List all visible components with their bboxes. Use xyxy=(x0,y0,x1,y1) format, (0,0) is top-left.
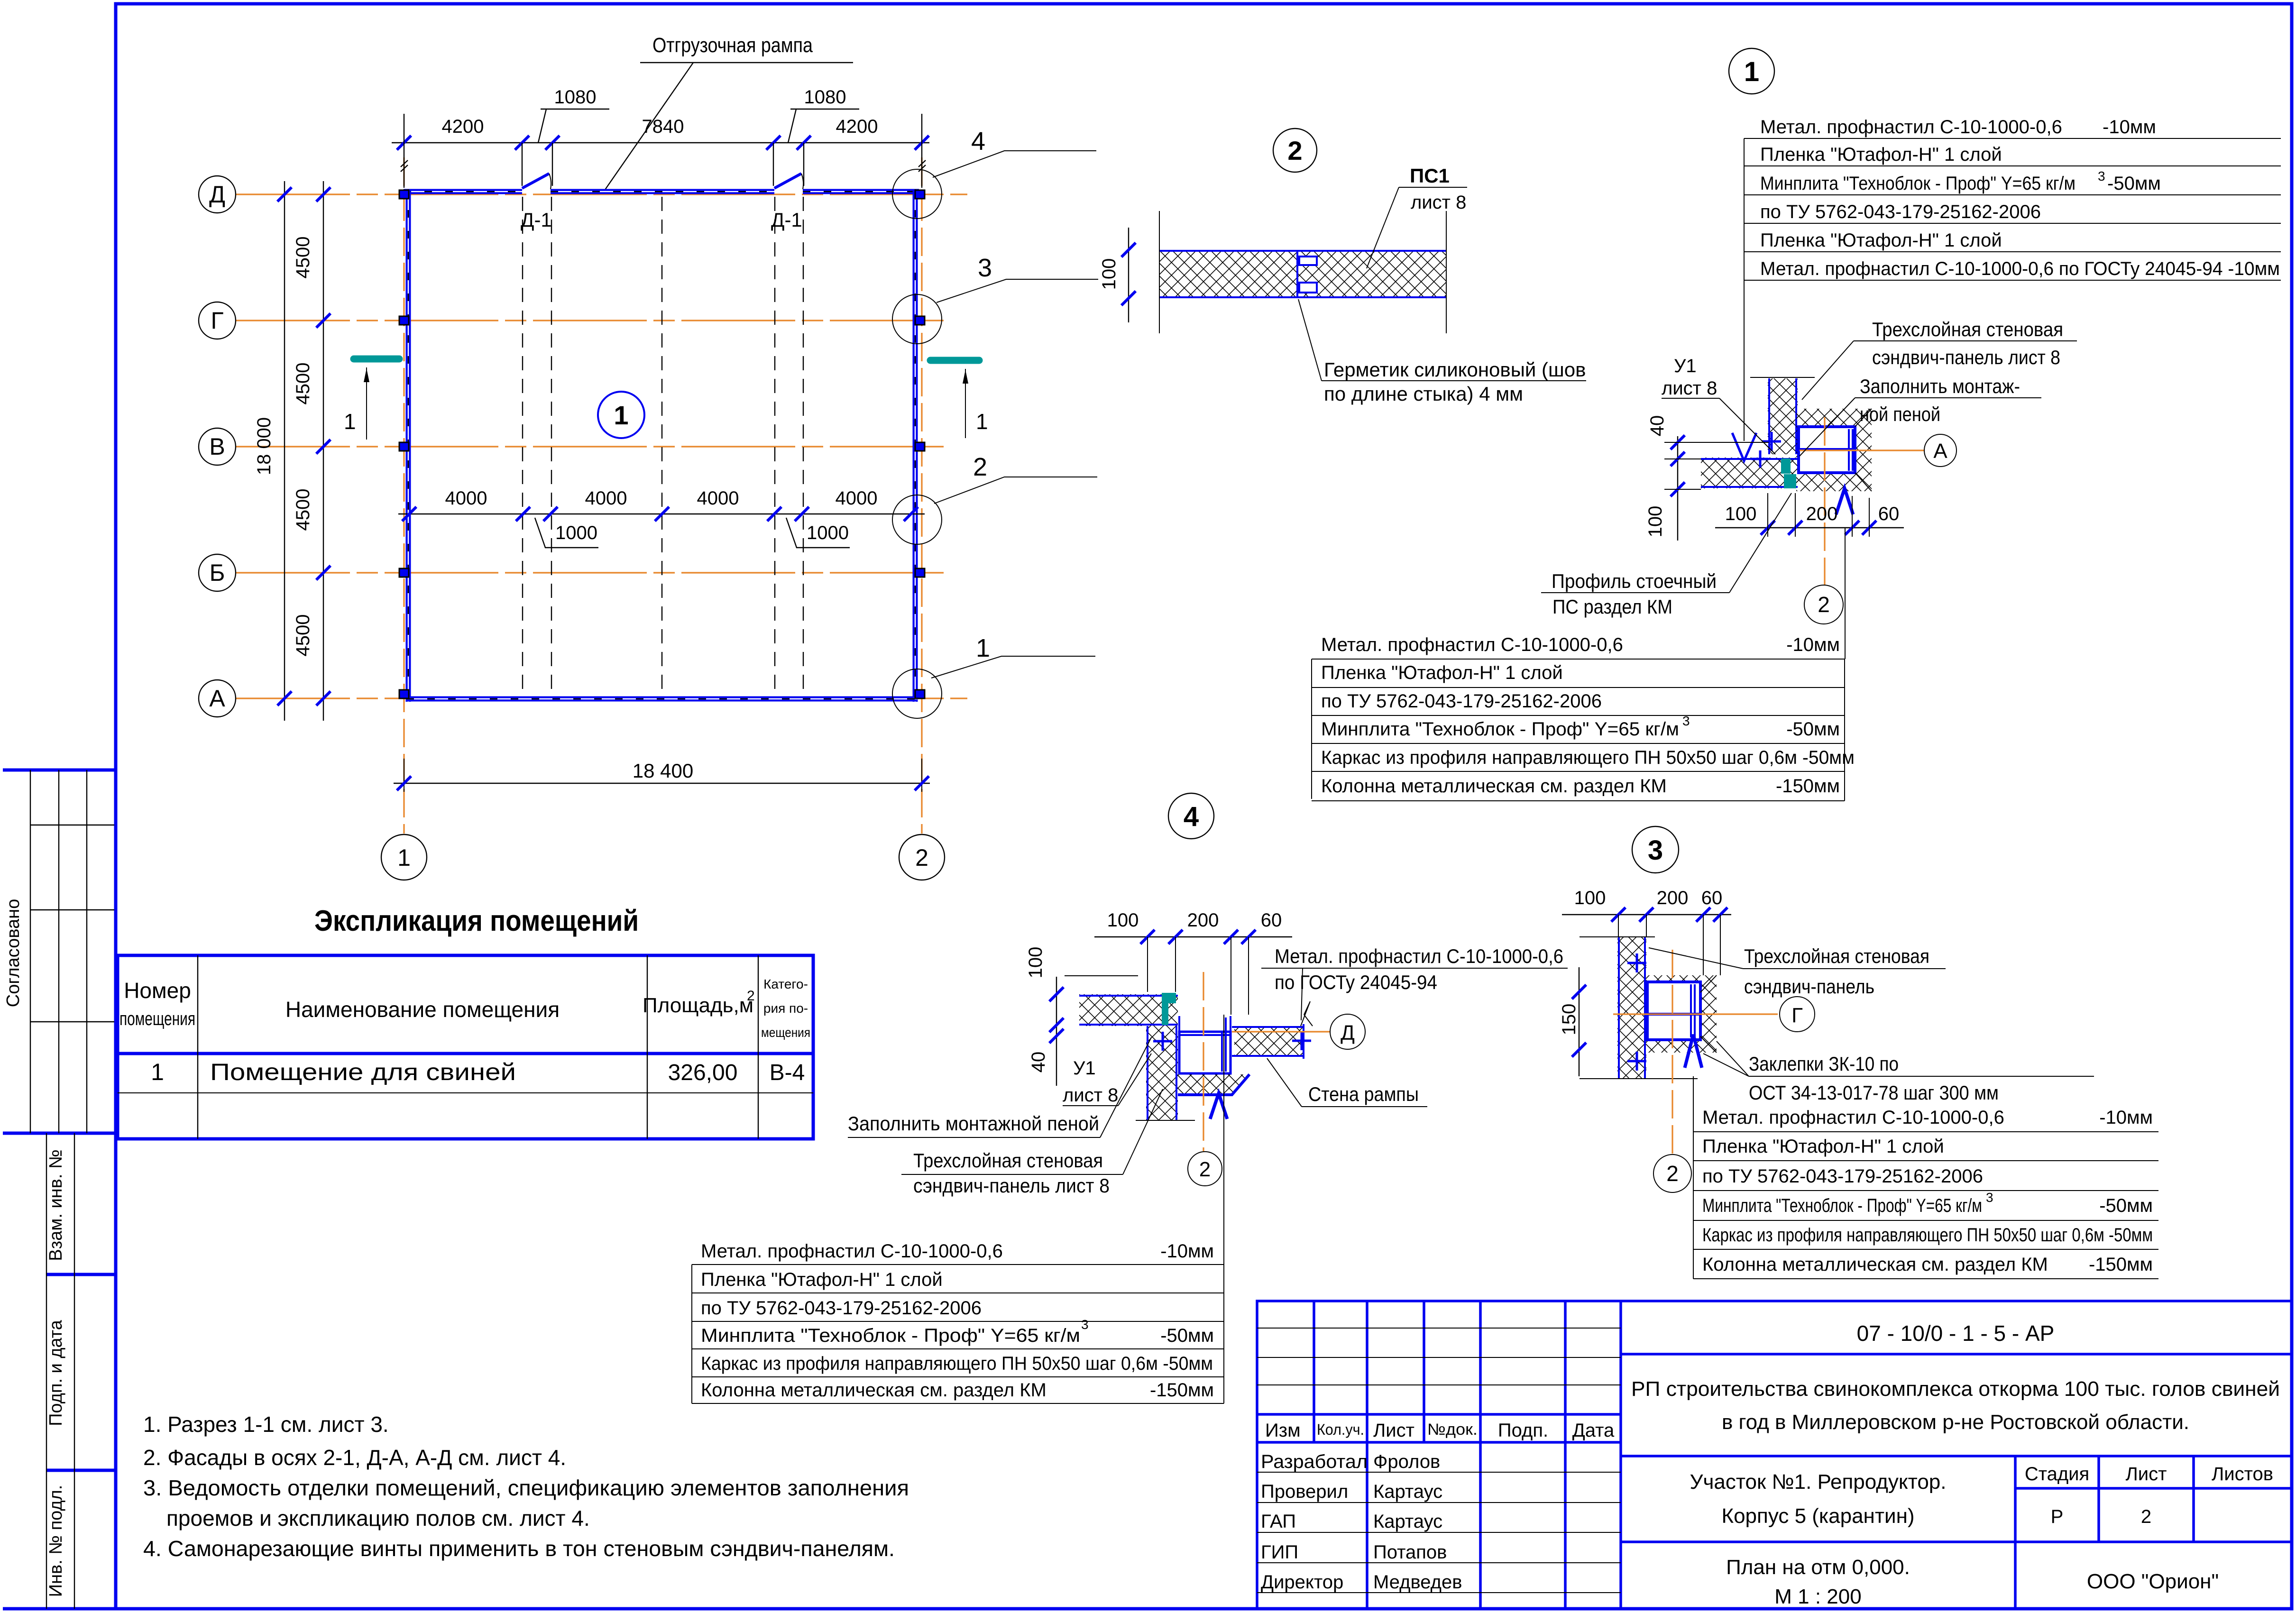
svg-text:4000: 4000 xyxy=(836,488,878,509)
svg-text:У1: У1 xyxy=(1674,356,1697,376)
svg-text:Заклепки ЗК-10 по: Заклепки ЗК-10 по xyxy=(1749,1053,1899,1075)
svg-text:Экспликация помещений: Экспликация помещений xyxy=(314,905,639,937)
svg-text:Отгрузочная рампа: Отгрузочная рампа xyxy=(652,34,813,57)
svg-text:Г: Г xyxy=(211,307,223,334)
svg-text:по длине стыка) 4 мм: по длине стыка) 4 мм xyxy=(1324,383,1523,405)
svg-text:ПС1: ПС1 xyxy=(1410,165,1450,187)
svg-text:Площадь,м: Площадь,м xyxy=(643,994,753,1017)
svg-text:Колонна металлическая см. разд: Колонна металлическая см. раздел КМ xyxy=(701,1380,1047,1401)
svg-text:в год в Миллеровском р-не Рост: в год в Миллеровском р-не Ростовской обл… xyxy=(1722,1411,2189,1434)
svg-text:Наименование помещения: Наименование помещения xyxy=(285,997,560,1022)
svg-text:Заполнить монтажной пеной: Заполнить монтажной пеной xyxy=(848,1112,1099,1135)
svg-text:Б: Б xyxy=(210,559,225,586)
svg-text:Лист: Лист xyxy=(2126,1464,2167,1485)
svg-text:326,00: 326,00 xyxy=(668,1060,738,1085)
svg-text:4200: 4200 xyxy=(836,116,878,137)
svg-text:3: 3 xyxy=(1081,1317,1089,1332)
svg-text:сэндвич-панель лист 8: сэндвич-панель лист 8 xyxy=(913,1174,1110,1197)
svg-text:Р: Р xyxy=(2051,1506,2064,1527)
svg-text:-50мм: -50мм xyxy=(1160,1325,1214,1346)
svg-text:1000: 1000 xyxy=(555,522,597,543)
svg-text:-50мм: -50мм xyxy=(1786,719,1840,740)
svg-text:по ТУ 5762-043-179-25162-2006: по ТУ 5762-043-179-25162-2006 xyxy=(1760,202,2041,222)
svg-text:Метал. профнастил С-10-1000-0,: Метал. профнастил С-10-1000-0,6 xyxy=(1760,117,2062,137)
svg-text:У1: У1 xyxy=(1073,1058,1096,1079)
svg-text:4500: 4500 xyxy=(293,489,313,531)
svg-text:РП строительства свинокомплекс: РП строительства свинокомплекса откорма … xyxy=(1631,1377,2280,1401)
svg-text:3. Ведомость отделки помещений: 3. Ведомость отделки помещений, специфик… xyxy=(143,1476,909,1500)
svg-text:Пленка "Ютафол-Н" 1 слой: Пленка "Ютафол-Н" 1 слой xyxy=(1760,144,2002,165)
svg-text:Минплита "Техноблок - Проф" Y=: Минплита "Техноблок - Проф" Y=65 кг/м xyxy=(1702,1195,1982,1216)
svg-text:Д-1: Д-1 xyxy=(521,209,552,231)
svg-text:100: 100 xyxy=(1725,504,1757,524)
svg-text:Трехслойная стеновая: Трехслойная стеновая xyxy=(1744,945,1929,967)
svg-text:4500: 4500 xyxy=(293,237,313,279)
svg-text:Заполнить монтаж-: Заполнить монтаж- xyxy=(1860,375,2020,397)
svg-text:-10мм: -10мм xyxy=(1160,1241,1214,1262)
svg-text:1: 1 xyxy=(976,634,990,662)
svg-text:-50мм: -50мм xyxy=(2099,1195,2153,1216)
svg-text:Инв. № подл.: Инв. № подл. xyxy=(46,1485,66,1597)
svg-text:лист 8: лист 8 xyxy=(1662,378,1717,399)
svg-text:4: 4 xyxy=(971,127,985,156)
svg-text:Фролов: Фролов xyxy=(1373,1451,1440,1472)
svg-text:40: 40 xyxy=(1028,1052,1049,1073)
svg-text:Минплита "Техноблок - Проф" Y=: Минплита "Техноблок - Проф" Y=65 кг/м xyxy=(1321,719,1679,740)
svg-text:лист 8: лист 8 xyxy=(1063,1085,1118,1106)
svg-text:Каркас из профиля направляющег: Каркас из профиля направляющего ПН 50х50… xyxy=(1702,1225,2153,1246)
svg-text:1: 1 xyxy=(976,409,988,434)
svg-text:2: 2 xyxy=(1818,592,1830,617)
svg-text:Картаус: Картаус xyxy=(1373,1481,1442,1502)
svg-text:Колонна металлическая см. разд: Колонна металлическая см. раздел КМ xyxy=(1321,776,1667,797)
svg-text:Минплита "Техноблок - Проф" Y=: Минплита "Техноблок - Проф" Y=65 кг/м xyxy=(701,1325,1080,1346)
svg-text:3: 3 xyxy=(1648,835,1663,866)
svg-text:-10мм: -10мм xyxy=(2099,1107,2153,1128)
svg-text:Корпус 5 (карантин): Корпус 5 (карантин) xyxy=(1721,1504,1914,1528)
svg-text:Картаус: Картаус xyxy=(1373,1511,1442,1532)
svg-text:№док.: №док. xyxy=(1427,1421,1478,1439)
svg-text:помещения: помещения xyxy=(119,1008,195,1029)
svg-text:Изм: Изм xyxy=(1265,1420,1301,1441)
svg-text:Пленка "Ютафол-Н" 1 слой: Пленка "Ютафол-Н" 1 слой xyxy=(701,1269,943,1290)
svg-text:сэндвич-панель лист 8: сэндвич-панель лист 8 xyxy=(1872,346,2060,368)
svg-text:-150мм: -150мм xyxy=(1776,776,1840,797)
svg-text:-150мм: -150мм xyxy=(1150,1380,1214,1401)
svg-text:ПС раздел КМ: ПС раздел КМ xyxy=(1552,596,1672,618)
svg-text:Профиль стоечный: Профиль стоечный xyxy=(1552,570,1717,592)
svg-text:2: 2 xyxy=(1666,1161,1679,1186)
svg-text:4000: 4000 xyxy=(445,488,487,509)
svg-text:4500: 4500 xyxy=(293,363,313,405)
svg-text:Стадия: Стадия xyxy=(2025,1464,2089,1485)
svg-text:200: 200 xyxy=(1187,910,1219,931)
svg-text:1: 1 xyxy=(344,409,356,434)
svg-text:Проверил: Проверил xyxy=(1261,1481,1348,1502)
svg-text:Г: Г xyxy=(1791,1004,1803,1027)
svg-text:План на отм 0,000.: План на отм 0,000. xyxy=(1726,1556,1910,1579)
svg-text:2: 2 xyxy=(747,988,755,1004)
svg-text:100: 100 xyxy=(1574,888,1606,908)
svg-text:Помещение для свиней: Помещение для свиней xyxy=(210,1059,516,1085)
svg-text:М 1 : 200: М 1 : 200 xyxy=(1774,1585,1861,1608)
svg-text:Катего-: Катего- xyxy=(763,977,808,991)
svg-text:рия по-: рия по- xyxy=(763,1001,808,1016)
svg-text:2: 2 xyxy=(915,844,928,871)
svg-text:Согласовано: Согласовано xyxy=(3,899,23,1007)
svg-text:-50мм: -50мм xyxy=(2107,173,2161,194)
svg-text:Каркас из профиля направляющег: Каркас из профиля направляющего ПН 50х50… xyxy=(701,1353,1213,1374)
svg-text:сэндвич-панель: сэндвич-панель xyxy=(1744,975,1874,998)
svg-text:-150мм: -150мм xyxy=(2089,1254,2153,1275)
svg-text:мещения: мещения xyxy=(761,1025,810,1040)
svg-text:1080: 1080 xyxy=(804,87,846,108)
svg-text:Трехслойная стеновая: Трехслойная стеновая xyxy=(913,1149,1103,1172)
svg-text:4200: 4200 xyxy=(442,116,484,137)
svg-text:Разработал: Разработал xyxy=(1261,1451,1368,1472)
svg-text:07 - 10/0 - 1 - 5 - АР: 07 - 10/0 - 1 - 5 - АР xyxy=(1857,1321,2055,1346)
svg-text:Подп.: Подп. xyxy=(1498,1420,1548,1441)
svg-text:лист 8: лист 8 xyxy=(1411,192,1466,213)
svg-text:1080: 1080 xyxy=(554,87,597,108)
svg-text:ной пеной: ной пеной xyxy=(1860,403,1940,425)
svg-text:60: 60 xyxy=(1261,910,1282,931)
svg-text:В: В xyxy=(209,433,225,460)
svg-text:Каркас из профиля направляющег: Каркас из профиля направляющего ПН 50х50… xyxy=(1321,747,1855,768)
svg-text:Дата: Дата xyxy=(1572,1420,1615,1441)
svg-text:Пленка "Ютафол-Н" 1 слой: Пленка "Ютафол-Н" 1 слой xyxy=(1321,662,1563,683)
svg-text:150: 150 xyxy=(1559,1004,1580,1036)
svg-text:60: 60 xyxy=(1878,504,1900,524)
svg-text:200: 200 xyxy=(1657,888,1689,908)
svg-text:1. Разрез 1-1 см. лист 3.: 1. Разрез 1-1 см. лист 3. xyxy=(143,1412,389,1437)
svg-text:100: 100 xyxy=(1107,910,1139,931)
svg-text:ГИП: ГИП xyxy=(1261,1542,1298,1563)
svg-text:3: 3 xyxy=(1682,714,1690,728)
svg-text:ОСТ 34-13-017-78 шаг 300 мм: ОСТ 34-13-017-78 шаг 300 мм xyxy=(1749,1081,1999,1104)
svg-text:по ГОСТу 24045-94: по ГОСТу 24045-94 xyxy=(1275,971,1437,993)
svg-text:2: 2 xyxy=(2141,1506,2151,1527)
svg-text:4000: 4000 xyxy=(585,488,627,509)
svg-text:Колонна металлическая см. разд: Колонна металлическая см. раздел КМ xyxy=(1702,1254,2048,1275)
svg-text:Номер: Номер xyxy=(124,978,191,1003)
svg-text:проемов и экспликацию полов см: проемов и экспликацию полов см. лист 4. xyxy=(166,1506,590,1531)
svg-text:4. Самонарезающие винты примен: 4. Самонарезающие винты применить в тон … xyxy=(143,1536,895,1561)
svg-text:Метал. профнастил С-10-1000-0,: Метал. профнастил С-10-1000-0,6 xyxy=(1702,1107,2004,1128)
svg-text:100: 100 xyxy=(1099,258,1120,290)
svg-text:по ТУ 5762-043-179-25162-2006: по ТУ 5762-043-179-25162-2006 xyxy=(1321,691,1602,712)
svg-text:Д: Д xyxy=(1341,1021,1355,1045)
svg-text:Герметик силиконовый (шов: Герметик силиконовый (шов xyxy=(1324,358,1586,381)
svg-text:Стена рампы: Стена рампы xyxy=(1308,1083,1419,1105)
svg-text:18 400: 18 400 xyxy=(633,760,693,782)
svg-text:2: 2 xyxy=(973,453,987,481)
svg-text:Метал. профнастил С-10-1000-0,: Метал. профнастил С-10-1000-0,6 xyxy=(1275,945,1563,967)
svg-text:Пленка "Ютафол-Н" 1 слой: Пленка "Ютафол-Н" 1 слой xyxy=(1760,230,2002,251)
svg-text:А: А xyxy=(209,685,225,712)
svg-text:3: 3 xyxy=(978,254,992,282)
svg-text:4500: 4500 xyxy=(293,614,313,657)
svg-text:-10мм: -10мм xyxy=(2103,117,2156,137)
svg-text:4000: 4000 xyxy=(697,488,739,509)
svg-text:по ТУ 5762-043-179-25162-2006: по ТУ 5762-043-179-25162-2006 xyxy=(1702,1166,1983,1187)
svg-text:3: 3 xyxy=(1986,1190,1993,1205)
svg-text:Метал. профнастил С-10-1000-0,: Метал. профнастил С-10-1000-0,6 по ГОСТу… xyxy=(1760,258,2280,279)
svg-text:Д: Д xyxy=(209,181,225,208)
svg-text:1: 1 xyxy=(1744,56,1759,87)
svg-text:1000: 1000 xyxy=(807,522,849,543)
svg-text:Участок №1. Репродуктор.: Участок №1. Репродуктор. xyxy=(1690,1470,1947,1494)
svg-text:1: 1 xyxy=(151,1059,164,1085)
svg-text:Д-1: Д-1 xyxy=(771,209,802,231)
svg-text:Подп. и дата: Подп. и дата xyxy=(46,1320,66,1426)
svg-text:Директор: Директор xyxy=(1261,1572,1343,1593)
svg-text:В-4: В-4 xyxy=(770,1060,805,1085)
svg-text:18 000: 18 000 xyxy=(254,417,275,475)
svg-text:3: 3 xyxy=(2098,169,2105,183)
svg-text:ООО "Орион": ООО "Орион" xyxy=(2087,1570,2219,1593)
svg-text:60: 60 xyxy=(1701,888,1723,908)
svg-text:Листов: Листов xyxy=(2212,1464,2273,1485)
svg-text:-10мм: -10мм xyxy=(1786,634,1840,655)
svg-text:4: 4 xyxy=(1184,801,1199,832)
svg-text:1: 1 xyxy=(397,844,411,871)
svg-text:40: 40 xyxy=(1647,415,1668,437)
svg-text:2. Фасады в осях 2-1, Д-А, А-Д: 2. Фасады в осях 2-1, Д-А, А-Д см. лист … xyxy=(143,1445,566,1470)
svg-text:ГАП: ГАП xyxy=(1261,1511,1296,1532)
svg-text:200: 200 xyxy=(1806,504,1838,524)
svg-text:2: 2 xyxy=(1287,136,1302,165)
svg-text:по ТУ 5762-043-179-25162-2006: по ТУ 5762-043-179-25162-2006 xyxy=(701,1298,982,1319)
svg-text:Метал. профнастил С-10-1000-0,: Метал. профнастил С-10-1000-0,6 xyxy=(1321,634,1623,655)
svg-text:Медведев: Медведев xyxy=(1373,1572,1462,1593)
svg-text:1: 1 xyxy=(614,400,628,430)
svg-text:Пленка "Ютафол-Н" 1 слой: Пленка "Ютафол-Н" 1 слой xyxy=(1702,1136,1944,1157)
svg-text:Взам. инв. №: Взам. инв. № xyxy=(46,1149,66,1261)
svg-text:Потапов: Потапов xyxy=(1373,1542,1447,1563)
svg-text:Минплита "Техноблок - Проф" Y=: Минплита "Техноблок - Проф" Y=65 кг/м xyxy=(1760,173,2076,194)
svg-text:Кол.уч.: Кол.уч. xyxy=(1317,1421,1364,1438)
svg-text:100: 100 xyxy=(1025,947,1046,979)
svg-text:100: 100 xyxy=(1645,506,1666,538)
svg-text:А: А xyxy=(1933,440,1947,463)
svg-text:2: 2 xyxy=(1199,1158,1211,1181)
svg-text:Лист: Лист xyxy=(1373,1420,1414,1441)
svg-text:Трехслойная стеновая: Трехслойная стеновая xyxy=(1872,318,2063,340)
svg-text:Метал. профнастил С-10-1000-0,: Метал. профнастил С-10-1000-0,6 xyxy=(701,1241,1003,1262)
